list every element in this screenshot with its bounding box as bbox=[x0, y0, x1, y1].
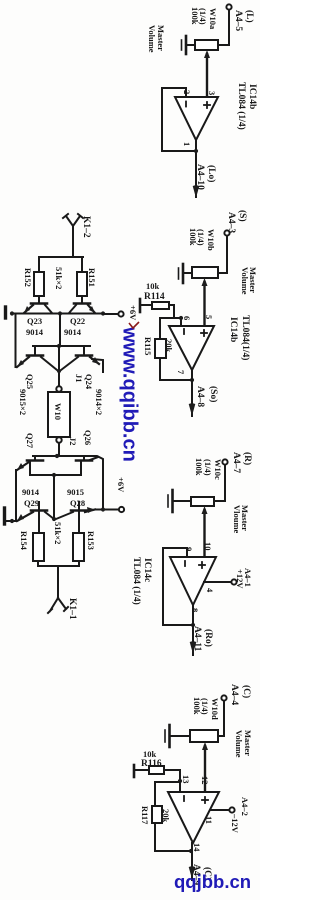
node bbox=[178, 779, 182, 783]
svg-text:W10: W10 bbox=[53, 403, 63, 420]
potentiometer W10c 100k bbox=[191, 497, 214, 506]
plus sign bbox=[202, 799, 208, 801]
svg-text:J2: J2 bbox=[68, 437, 78, 446]
wire to +6V lower bbox=[95, 509, 118, 511]
svg-text:W10c: W10c bbox=[213, 459, 223, 480]
op-amp IC14b triangle bbox=[169, 326, 214, 370]
terminal +6V bbox=[118, 311, 123, 316]
transistor Q29 bbox=[38, 502, 40, 509]
svg-text:100k: 100k bbox=[188, 228, 198, 246]
node bbox=[101, 311, 105, 315]
terminal A4-2 -12V bbox=[229, 807, 234, 812]
svg-text:8: 8 bbox=[190, 608, 200, 612]
resistor R116 10k bbox=[149, 766, 164, 774]
ground at pot bbox=[187, 44, 195, 46]
plus sign bbox=[199, 564, 205, 566]
svg-text:W10d: W10d bbox=[210, 698, 220, 720]
svg-text:100k: 100k bbox=[194, 458, 204, 476]
wire split bbox=[39, 257, 84, 272]
svg-text:Q24: Q24 bbox=[84, 374, 94, 390]
svg-text:2: 2 bbox=[182, 90, 192, 94]
resistor R151 51k bbox=[77, 272, 87, 296]
resistor R117 20k bbox=[152, 806, 162, 823]
svg-text:A4–2: A4–2 bbox=[240, 797, 250, 816]
svg-text:9014: 9014 bbox=[64, 327, 82, 337]
svg-text:TL084 (1/4): TL084 (1/4) bbox=[236, 82, 247, 130]
terminal A4-7 (R) bbox=[222, 459, 227, 464]
wire bbox=[218, 701, 224, 736]
resistor R115 20k bbox=[155, 339, 166, 358]
svg-text:+12V: +12V bbox=[235, 569, 245, 589]
svg-text:(Lo): (Lo) bbox=[206, 165, 217, 182]
resistor R152 51k bbox=[34, 272, 44, 296]
svg-text:R151: R151 bbox=[87, 268, 97, 287]
+12V wire pin4 bbox=[204, 581, 231, 583]
svg-text:Volume: Volume bbox=[234, 730, 244, 758]
output arrow (Ro) A4-11 bbox=[190, 641, 197, 654]
wire node to R115 bbox=[160, 318, 181, 339]
svg-text:Q28: Q28 bbox=[70, 498, 85, 508]
resistor R153 51k bbox=[73, 533, 84, 561]
wire bbox=[15, 470, 17, 521]
svg-text:Q25: Q25 bbox=[25, 374, 35, 389]
wire to K1-1 bbox=[57, 566, 59, 598]
svg-text:3: 3 bbox=[207, 91, 217, 95]
node bbox=[191, 623, 195, 627]
svg-text:Volume: Volume bbox=[240, 267, 250, 295]
svg-text:13: 13 bbox=[181, 775, 191, 784]
plus sign bbox=[204, 104, 210, 106]
svg-text:(L): (L) bbox=[244, 10, 255, 23]
svg-text:9014: 9014 bbox=[26, 327, 44, 337]
wiper wire bbox=[206, 54, 208, 97]
ground at pot bbox=[171, 735, 190, 737]
op-amp IC14 triangle bbox=[168, 792, 219, 843]
svg-text:R154: R154 bbox=[19, 531, 29, 551]
ground terminal left lower bbox=[3, 508, 6, 524]
output wire pin1 bbox=[195, 140, 197, 197]
rail stub bbox=[133, 765, 136, 777]
op-amp IC14b triangle bbox=[175, 97, 218, 140]
resistor R154 51k bbox=[33, 533, 44, 561]
output wire pin14 bbox=[191, 843, 193, 880]
svg-text:W10b: W10b bbox=[206, 229, 216, 251]
svg-text:W10a: W10a bbox=[208, 8, 218, 30]
node bbox=[58, 311, 62, 315]
+6V rail stub bbox=[139, 299, 142, 312]
ground at pot bbox=[184, 272, 192, 274]
svg-text:R116: R116 bbox=[141, 759, 162, 769]
-12V wire pin11 bbox=[211, 809, 229, 811]
wire bbox=[81, 296, 83, 302]
svg-text:Q26: Q26 bbox=[83, 430, 93, 445]
svg-text:–12V: –12V bbox=[230, 813, 240, 834]
node bbox=[179, 316, 183, 320]
minus sign bbox=[183, 329, 185, 334]
node bbox=[190, 378, 194, 382]
wire R114 to node bbox=[169, 305, 181, 318]
svg-text:20k: 20k bbox=[161, 809, 171, 823]
svg-text:(C): (C) bbox=[241, 685, 252, 698]
output wire pin8 bbox=[192, 605, 194, 655]
svg-text:9: 9 bbox=[184, 547, 194, 551]
svg-text:(Ro): (Ro) bbox=[203, 629, 214, 647]
transistor Q24 bbox=[83, 346, 85, 354]
svg-text:A4–5: A4–5 bbox=[233, 10, 243, 31]
node (junction dot) bbox=[194, 149, 198, 153]
wiper wire pin12 bbox=[204, 746, 206, 792]
svg-text:20k: 20k bbox=[164, 339, 174, 353]
wire node to R117 bbox=[155, 782, 180, 806]
terminal +6V lower bbox=[119, 507, 124, 512]
red tick mark bbox=[129, 322, 139, 328]
transistor Q28 bbox=[78, 502, 80, 509]
svg-text:4: 4 bbox=[205, 588, 215, 593]
svg-text:www.qqibb.cn: www.qqibb.cn bbox=[119, 326, 141, 462]
svg-text:51k×2: 51k×2 bbox=[54, 267, 64, 289]
svg-text:5: 5 bbox=[204, 315, 214, 319]
svg-text:TL084 (1/4): TL084 (1/4) bbox=[131, 557, 142, 605]
svg-text:R114: R114 bbox=[144, 292, 165, 302]
terminal A4-3 (S) bbox=[224, 230, 229, 235]
svg-text:10k: 10k bbox=[146, 281, 160, 291]
svg-text:12: 12 bbox=[200, 776, 210, 785]
pin13 stub bbox=[179, 781, 181, 792]
pin9 stub bbox=[186, 548, 188, 557]
feedback wire bbox=[155, 823, 191, 851]
output wire pin7 bbox=[191, 370, 193, 416]
wire bbox=[214, 465, 225, 501]
svg-text:(So): (So) bbox=[208, 386, 219, 402]
svg-text:Volume: Volume bbox=[147, 25, 157, 53]
svg-text:(S): (S) bbox=[237, 210, 248, 222]
svg-text:Q27: Q27 bbox=[25, 433, 35, 449]
svg-text:IC14b: IC14b bbox=[247, 84, 257, 109]
wire bbox=[59, 314, 61, 346]
svg-text:IC14c: IC14c bbox=[142, 558, 152, 582]
svg-text:9014×2: 9014×2 bbox=[94, 389, 104, 415]
svg-text:R152: R152 bbox=[23, 268, 33, 287]
minus sign bbox=[185, 102, 187, 107]
wire R116 to node bbox=[164, 770, 180, 781]
terminal A4-5 (L) bbox=[226, 4, 231, 9]
svg-text:11: 11 bbox=[204, 816, 214, 824]
terminal A4-4 (C) bbox=[221, 695, 226, 700]
svg-text:K1–2: K1–2 bbox=[81, 216, 91, 238]
feedback wire bbox=[160, 358, 192, 380]
svg-text:A4–7: A4–7 bbox=[231, 452, 241, 473]
potentiometer W10d 100k bbox=[190, 730, 218, 742]
rail bbox=[30, 474, 81, 476]
svg-text:Vloume: Vloume bbox=[232, 505, 242, 534]
potentiometer W10a 100k bbox=[195, 40, 218, 50]
pin2 stub bbox=[185, 88, 187, 97]
svg-text:A4–8: A4–8 bbox=[195, 386, 205, 407]
node bbox=[189, 849, 193, 853]
wire bbox=[38, 296, 40, 302]
wire bbox=[218, 236, 227, 273]
transistor Q26 bbox=[83, 456, 85, 460]
wire bbox=[15, 314, 17, 367]
svg-text:(R): (R) bbox=[242, 452, 253, 465]
svg-text:+6V: +6V bbox=[116, 477, 126, 493]
svg-text:Q23: Q23 bbox=[27, 316, 42, 326]
wiper wire pin10 bbox=[203, 510, 205, 557]
svg-text:TL084(1/4): TL084(1/4) bbox=[240, 315, 251, 360]
svg-text:A4–4: A4–4 bbox=[229, 684, 239, 705]
transistor Q23 bbox=[31, 302, 47, 305]
svg-text:10: 10 bbox=[203, 542, 213, 551]
svg-text:6: 6 bbox=[182, 316, 192, 320]
svg-text:9015: 9015 bbox=[67, 487, 84, 497]
plus sign bbox=[201, 332, 207, 334]
output arrow A4-9 bbox=[189, 866, 196, 879]
output arrow (So) A4-8 bbox=[189, 403, 196, 416]
pin6 stub bbox=[180, 318, 182, 326]
minus sign bbox=[184, 561, 186, 566]
ground at pot bbox=[174, 500, 191, 502]
svg-text:A4–3: A4–3 bbox=[226, 212, 236, 233]
feedback wire bbox=[162, 88, 196, 151]
svg-text:R117: R117 bbox=[140, 806, 150, 825]
transistor Q27 bbox=[34, 456, 36, 460]
svg-text:7: 7 bbox=[176, 370, 186, 375]
connector K1-1 bbox=[48, 598, 68, 613]
rail bbox=[33, 345, 90, 347]
svg-text:R153: R153 bbox=[86, 531, 96, 550]
wire to +6V bbox=[103, 313, 118, 315]
svg-text:Q22: Q22 bbox=[70, 316, 85, 326]
svg-text:Q29: Q29 bbox=[24, 498, 39, 508]
svg-text:100k: 100k bbox=[192, 697, 202, 715]
wire bbox=[53, 475, 55, 519]
wire bbox=[218, 10, 229, 45]
svg-text:R115: R115 bbox=[143, 337, 153, 355]
connector K1-2 bbox=[63, 214, 83, 226]
potentiometer W10b 100k bbox=[192, 267, 218, 278]
wire hook bbox=[92, 359, 103, 372]
svg-text:14: 14 bbox=[192, 843, 202, 852]
svg-text:10k: 10k bbox=[143, 749, 157, 759]
svg-text:K1–1: K1–1 bbox=[67, 598, 77, 620]
svg-text:A4–11: A4–11 bbox=[192, 626, 202, 652]
trimmer W10 bbox=[56, 386, 61, 391]
output arrow (Lo) A4-10 bbox=[193, 185, 200, 198]
transistor Q25 bbox=[34, 346, 36, 354]
svg-text:1: 1 bbox=[182, 142, 192, 146]
wires to bottom rail bbox=[38, 561, 79, 566]
ground terminal left bbox=[4, 307, 7, 318]
wiper wire pin5 bbox=[203, 282, 205, 326]
op-amp IC14c triangle bbox=[170, 557, 216, 605]
wire bbox=[58, 443, 60, 456]
wire bbox=[58, 346, 60, 389]
resistor R114 10k bbox=[152, 302, 169, 309]
svg-text:J1: J1 bbox=[74, 374, 84, 383]
svg-text:+6V: +6V bbox=[128, 305, 138, 321]
emitter rail bbox=[12, 313, 103, 315]
svg-text:100k: 100k bbox=[190, 7, 200, 25]
svg-text:A4–10: A4–10 bbox=[195, 164, 205, 190]
terminal A4-1 +12V bbox=[231, 579, 236, 584]
minus sign bbox=[183, 796, 185, 801]
svg-text:51k×2: 51k×2 bbox=[53, 522, 63, 544]
svg-text:IC14b: IC14b bbox=[228, 317, 238, 342]
svg-text:9014: 9014 bbox=[22, 487, 40, 497]
feedback wire bbox=[163, 548, 193, 625]
rail bbox=[33, 456, 103, 509]
svg-text:qqjbb.cn: qqjbb.cn bbox=[174, 871, 251, 892]
transistor Q22 bbox=[74, 302, 90, 305]
svg-text:9015×2: 9015×2 bbox=[18, 389, 28, 415]
